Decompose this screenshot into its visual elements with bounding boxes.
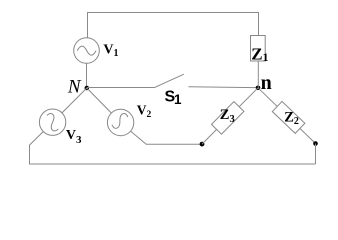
wire N to switch	[87, 87, 155, 89]
node n	[256, 86, 261, 91]
wire V2 to junction A	[131, 131, 202, 144]
wire V3 to bottom bus	[30, 132, 44, 164]
wire V1 to node N	[86, 63, 88, 88]
svg-text:Z2: Z2	[284, 110, 299, 128]
voltage source V1	[74, 38, 100, 64]
switch S1 blade	[155, 74, 184, 87]
impedance Z2	[272, 101, 305, 133]
impedance Z1	[251, 36, 269, 65]
voltage source V2	[107, 109, 133, 135]
wire top bus	[88, 13, 259, 38]
wire N to V2	[87, 88, 112, 113]
svg-text:n: n	[261, 72, 272, 94]
impedance Z3	[211, 102, 243, 135]
svg-text:V1: V1	[103, 43, 118, 59]
wire switch to node n	[189, 86, 259, 89]
node A junction	[200, 142, 205, 147]
wire node n to Z2	[258, 88, 316, 144]
svg-text:N: N	[67, 77, 82, 98]
wire junction A to node n	[202, 88, 258, 144]
voltage source V3	[39, 109, 65, 135]
svg-text:S1: S1	[165, 88, 182, 106]
wire node B to bottom bus	[315, 144, 317, 165]
wire bottom bus	[29, 163, 316, 165]
wire N to V3	[62, 88, 87, 113]
wire Z1 to node n	[257, 61, 259, 88]
node N	[85, 86, 90, 91]
svg-text:Z1: Z1	[251, 45, 268, 65]
node B junction	[313, 141, 318, 146]
svg-text:V2: V2	[137, 103, 152, 121]
svg-text:V3: V3	[66, 128, 82, 146]
